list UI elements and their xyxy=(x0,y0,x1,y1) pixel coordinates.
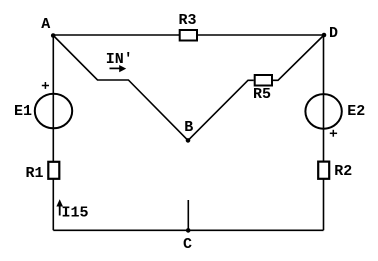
wire right vertical D to bottom-right corner xyxy=(323,35,325,230)
node D xyxy=(322,25,338,42)
svg-text:R3: R3 xyxy=(178,12,196,29)
wire left vertical A to bottom-left corner xyxy=(52,35,54,230)
wire R5 to D xyxy=(273,35,324,80)
resistor R5 xyxy=(253,75,272,103)
current arrow I15 xyxy=(56,199,88,221)
svg-text:R1: R1 xyxy=(25,165,43,182)
wire top A to D xyxy=(53,34,324,36)
wire diagonal B to R5 xyxy=(188,80,254,140)
node C xyxy=(183,228,192,253)
svg-text:R2: R2 xyxy=(334,163,352,180)
svg-text:R5: R5 xyxy=(253,86,271,103)
voltage source E1 xyxy=(14,94,72,129)
label IN' xyxy=(106,51,133,68)
arrow IN' xyxy=(110,65,127,72)
svg-text:B: B xyxy=(184,119,193,136)
resistor R2 xyxy=(318,162,352,180)
plus sign E1 xyxy=(42,82,49,89)
voltage source E2 xyxy=(305,94,365,129)
wire zigzag A to B xyxy=(53,36,188,141)
svg-text:D: D xyxy=(329,25,338,42)
plus sign E2 xyxy=(330,130,337,137)
svg-text:E2: E2 xyxy=(347,103,365,120)
node B xyxy=(184,119,193,143)
wire bottom xyxy=(53,229,323,231)
svg-text:I15: I15 xyxy=(61,205,88,222)
svg-text:E1: E1 xyxy=(14,103,32,120)
svg-text:C: C xyxy=(183,236,192,253)
wire stub above node C xyxy=(187,200,189,230)
node A xyxy=(41,16,55,38)
resistor R1 xyxy=(25,162,59,182)
resistor R3 xyxy=(178,12,197,41)
svg-text:A: A xyxy=(41,16,50,33)
